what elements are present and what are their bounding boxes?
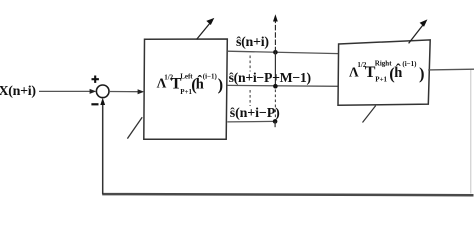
svg-text:ŝ(n+i−P): ŝ(n+i−P)	[230, 106, 280, 121]
adaptation arrow tail of block T_Right	[363, 106, 376, 123]
wire input to summer	[39, 89, 96, 94]
junction dot on s(n+i-P)	[273, 119, 278, 124]
wire tap line s(n+i-P+M-1) from T_Left to T_Right	[227, 84, 338, 87]
ellipsis dashes between tap 2 and tap 3	[249, 90, 251, 106]
minus sign at summer	[91, 103, 98, 105]
wire vertical tap bus between s(n+i) and s(n+i-P+M-1)	[274, 52, 276, 86]
label of block U1: Lambda^1/2 T_P+1^Left (h^(i-1))	[157, 73, 224, 96]
label of block U2: Lambda^1/2 T_P+1^Right (h^(i-1))	[349, 60, 425, 84]
adaptation arrow head of block T_Left	[197, 18, 215, 40]
svg-text:ĥ: ĥ	[394, 63, 402, 81]
summer (summing junction)	[96, 85, 109, 98]
plus sign at summer	[92, 76, 99, 83]
wire stub below s(n+i-P) junction	[274, 121, 276, 127]
wire output of T_Right to right edge	[428, 68, 474, 71]
wire feedback vertical to summer minus input	[100, 98, 105, 194]
node label s(n+i-P+M-1)	[229, 70, 312, 86]
wire feedback bottom line	[102, 194, 473, 195]
output arrow upward at s(n+i) tap	[273, 14, 278, 52]
svg-text:P+1: P+1	[375, 75, 387, 83]
wire tap line s(n+i-P) stub from T_Left	[227, 120, 275, 123]
wire summer to block T_Left	[109, 89, 144, 94]
junction dot on s(n+i)	[273, 50, 278, 55]
ellipsis dashes between tap 1 and tap 2	[249, 56, 251, 72]
svg-text:ŝ(n+i−P+M−1): ŝ(n+i−P+M−1)	[229, 70, 312, 86]
node label s(n+i-P)	[230, 106, 280, 121]
adaptation arrow of block T_Right	[409, 19, 428, 43]
adaptation arrow tail of block T_Left	[127, 117, 142, 138]
wire tap line s(n+i) from T_Left to T_Right	[227, 51, 338, 53]
svg-text:ŝ(n+i): ŝ(n+i)	[236, 35, 269, 50]
svg-text:(i−1): (i−1)	[402, 60, 417, 68]
svg-text:(i−1): (i−1)	[203, 73, 218, 81]
block U1 T_Left	[144, 39, 228, 139]
svg-text:): )	[419, 64, 425, 83]
wire faint feedback vertical at right	[470, 70, 472, 194]
junction dot on s(n+i-P+M-1)	[273, 84, 278, 89]
wire vertical dashed between tap 2 and tap 3	[274, 90, 276, 120]
svg-text:): )	[218, 75, 224, 94]
svg-text:X(n+i): X(n+i)	[0, 84, 36, 99]
block U2 T_Right	[338, 40, 430, 105]
node label s(n+i)	[236, 35, 269, 50]
node X(n+i) input label	[0, 84, 36, 99]
